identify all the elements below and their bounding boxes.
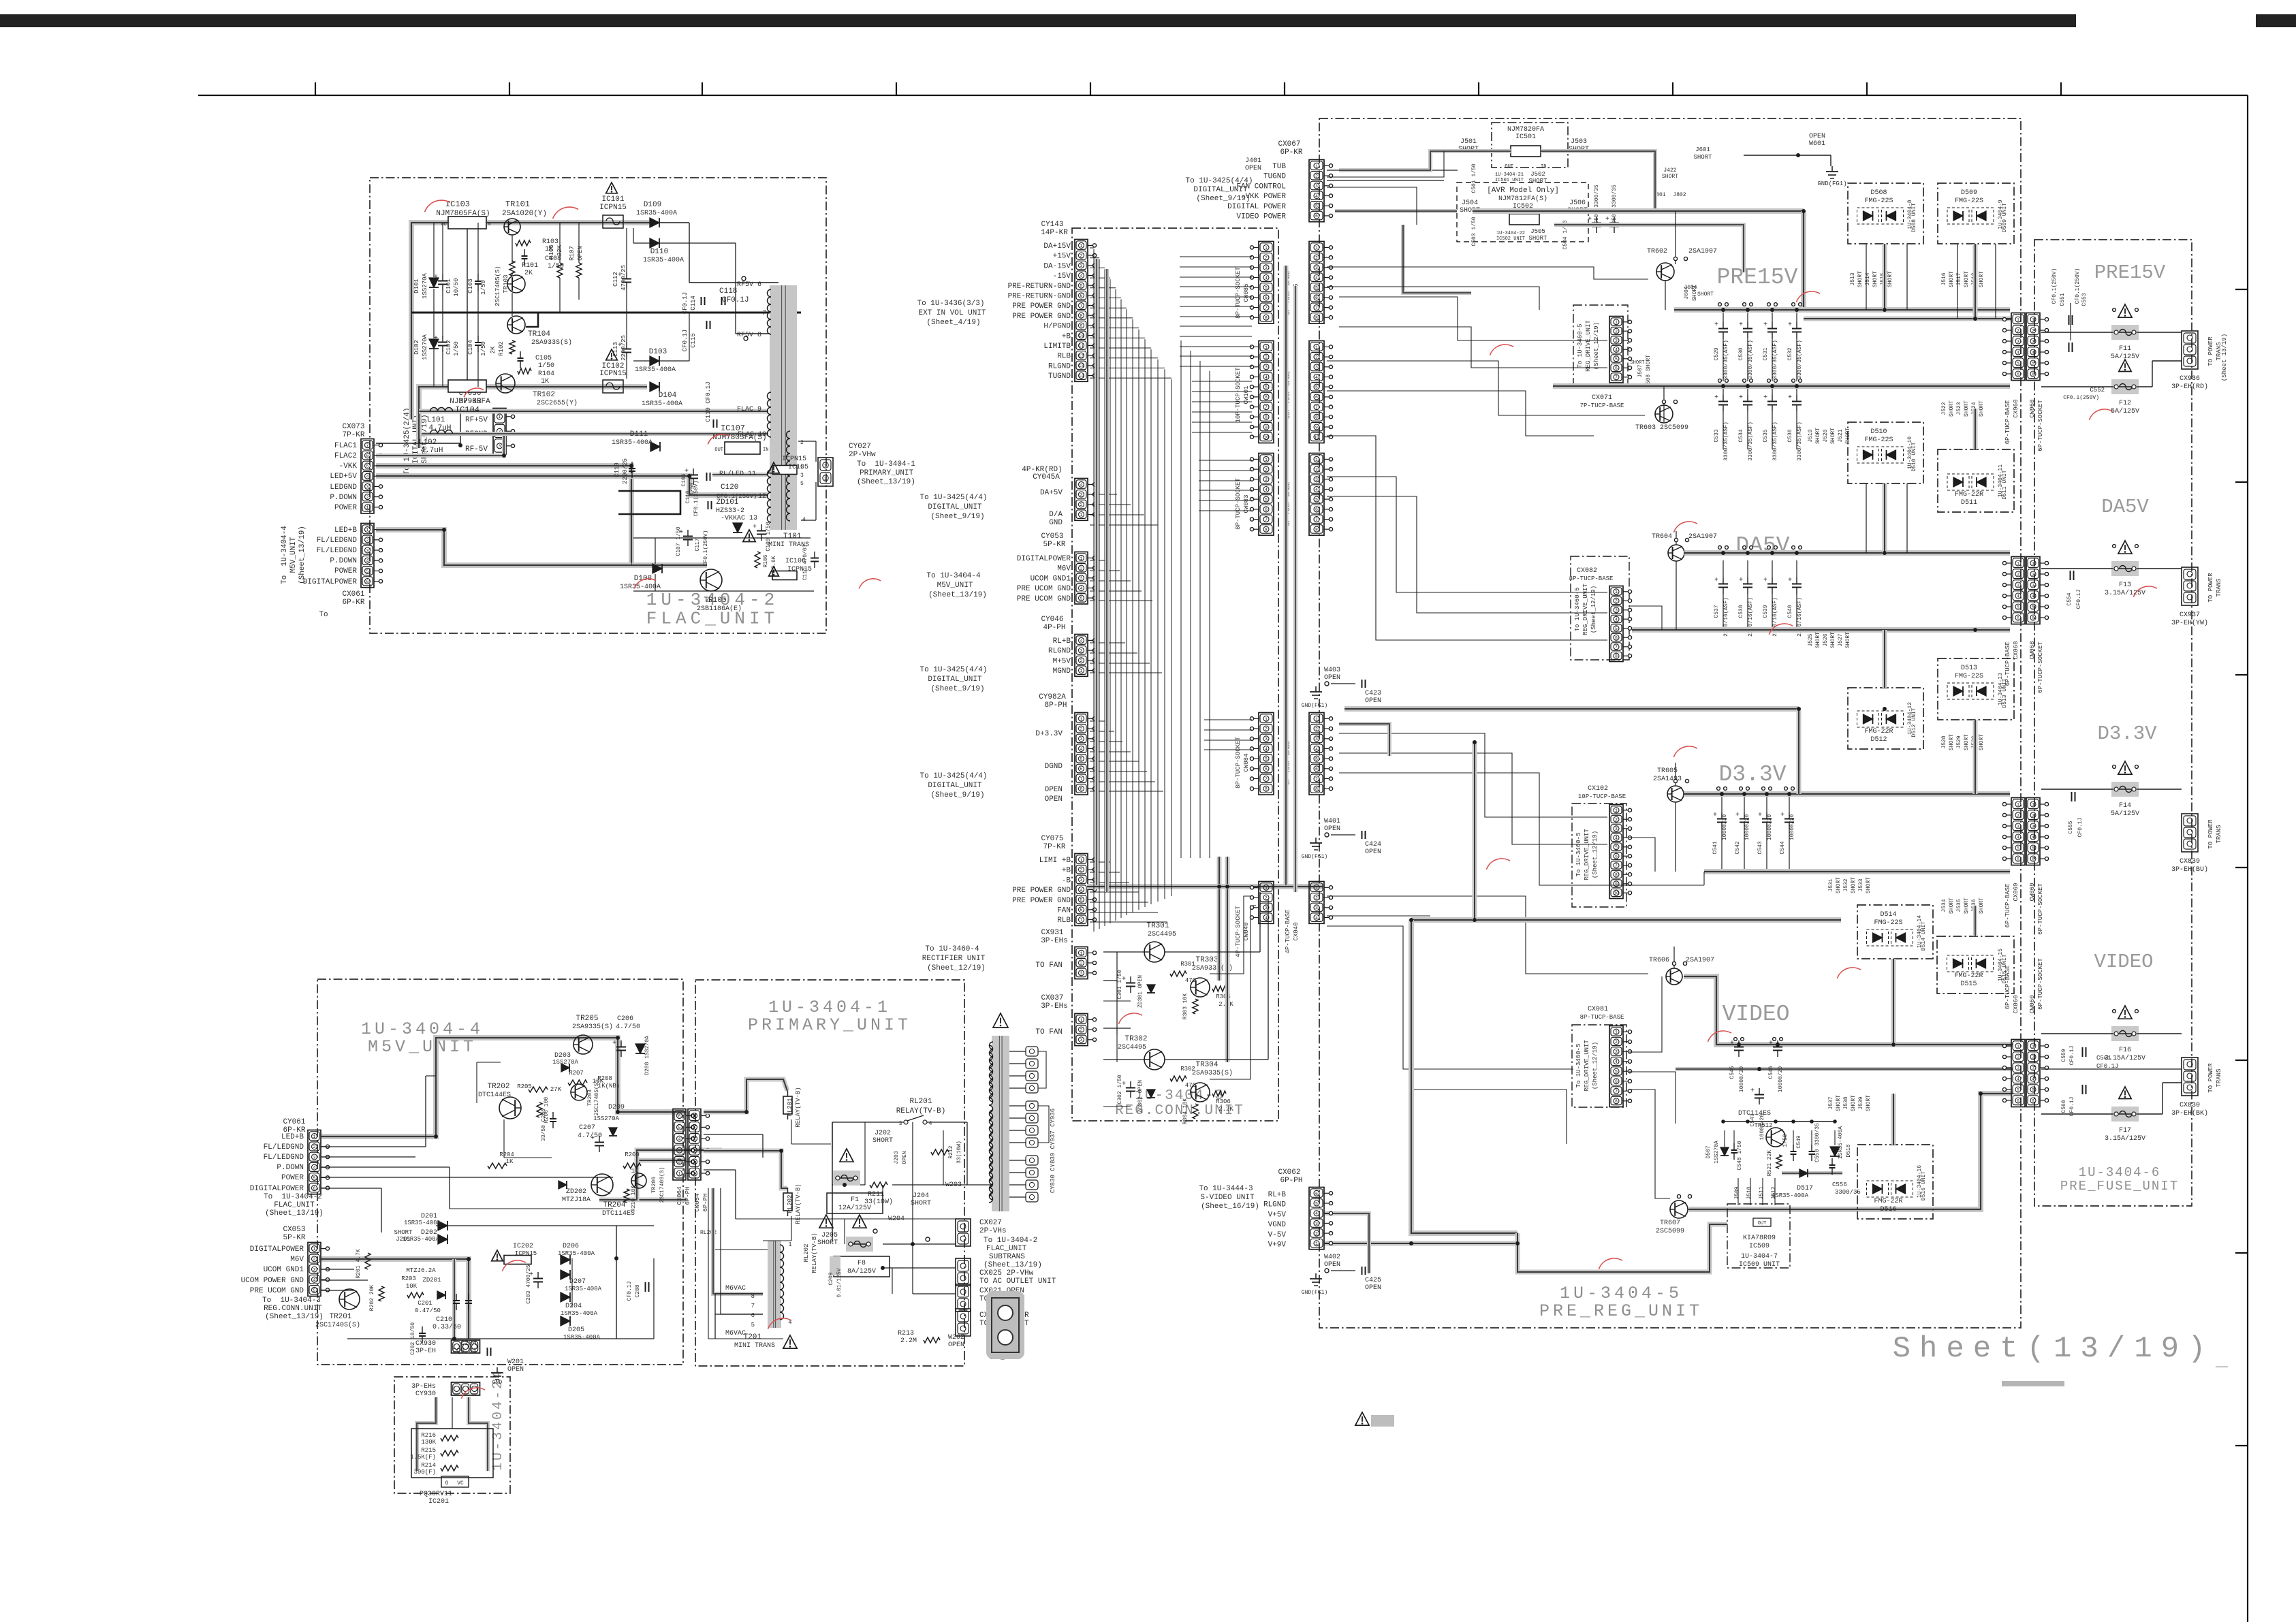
svg-text:VGND: VGND	[1268, 1221, 1287, 1229]
svg-text:S-VIDEO UNIT: S-VIDEO UNIT	[1200, 1194, 1255, 1202]
svg-text:2: 2	[1265, 468, 1268, 473]
svg-text:8: 8	[1615, 654, 1618, 659]
svg-text:ICPN15: ICPN15	[515, 1250, 537, 1257]
svg-text:3: 3	[1080, 737, 1083, 742]
svg-text:4P-TUCP-SOCKET: 4P-TUCP-SOCKET	[1235, 906, 1242, 957]
svg-text:1U-3404-14: 1U-3404-14	[1917, 915, 1923, 948]
svg-text:D509: D509	[1961, 189, 1977, 197]
svg-text:SHORT: SHORT	[1964, 271, 1970, 287]
svg-text:ZD301 OPEN: ZD301 OPEN	[1137, 975, 1144, 1008]
svg-text:TUB: TUB	[1272, 163, 1286, 171]
svg-text:VIDEO POWER: VIDEO POWER	[1236, 213, 1286, 221]
svg-text:+: +	[1763, 394, 1767, 402]
svg-text:CF0.1J: CF0.1J	[2077, 818, 2083, 838]
svg-text:3: 3	[1080, 493, 1083, 498]
svg-text:2: 2	[800, 440, 804, 446]
svg-text:6P-TUCP-BASE: 6P-TUCP-BASE	[2004, 642, 2011, 686]
svg-text:3: 3	[1315, 266, 1318, 270]
svg-text:2: 2	[313, 1257, 316, 1262]
svg-text:2SC4495: 2SC4495	[1118, 1044, 1146, 1051]
svg-text:5: 5	[1615, 845, 1618, 850]
svg-text:DA+5V: DA+5V	[1040, 489, 1063, 497]
svg-text:J504: J504	[1462, 200, 1478, 207]
svg-text:2P-VHw: 2P-VHw	[849, 451, 876, 459]
svg-text:OUT: OUT	[1758, 1221, 1767, 1226]
svg-text:4: 4	[1265, 916, 1268, 921]
svg-text:D209: D209	[608, 1104, 625, 1111]
svg-text:4: 4	[1315, 488, 1318, 492]
svg-text:1SS270A: 1SS270A	[422, 273, 428, 299]
svg-text:7P-TUCP-BASE: 7P-TUCP-BASE	[1580, 402, 1624, 409]
svg-text:LIMI +B: LIMI +B	[1039, 857, 1071, 865]
svg-text:4: 4	[366, 559, 369, 564]
svg-text:DIGITAL POWER: DIGITAL POWER	[1227, 203, 1286, 211]
svg-text:3: 3	[1315, 477, 1318, 482]
svg-text:8: 8	[1315, 415, 1318, 420]
svg-text:T101: T101	[783, 532, 802, 541]
svg-text:2: 2	[2017, 572, 2019, 577]
svg-text:5P-KR: 5P-KR	[283, 1234, 305, 1242]
svg-text:10: 10	[1263, 435, 1269, 440]
svg-text:F11: F11	[2119, 345, 2131, 353]
svg-text:1/50: 1/50	[1782, 1134, 1789, 1147]
svg-text:DIGITAL_UNIT: DIGITAL_UNIT	[928, 503, 982, 511]
svg-text:+: +	[1714, 321, 1718, 329]
svg-text:FMG-22S: FMG-22S	[1955, 197, 1983, 205]
svg-text:CF0.1(250V): CF0.1(250V)	[2075, 268, 2081, 304]
svg-text:6: 6	[1315, 1192, 1318, 1196]
svg-text:KIA78R09: KIA78R09	[1743, 1235, 1776, 1242]
svg-text:SHORT: SHORT	[1872, 271, 1878, 287]
svg-text:3.15A/125V: 3.15A/125V	[2105, 589, 2145, 597]
svg-text:2SC1740S(S): 2SC1740S(S)	[315, 1321, 360, 1329]
svg-text:4P-TUCP-BASE: 4P-TUCP-BASE	[1285, 910, 1291, 954]
svg-text:PRE15V: PRE15V	[2094, 261, 2166, 284]
svg-text:4: 4	[313, 1166, 316, 1171]
svg-text:To 1U-3404-2: To 1U-3404-2	[984, 1237, 1037, 1245]
svg-text:J521: J521	[1838, 429, 1844, 442]
svg-text:D104: D104	[659, 392, 677, 400]
svg-text:RL202: RL202	[787, 1194, 793, 1213]
svg-text:3300/35: 3300/35	[1835, 1189, 1861, 1196]
svg-text:+: +	[1588, 216, 1592, 223]
svg-text:To 1U-3425(4/4): To 1U-3425(4/4)	[919, 666, 987, 674]
svg-text:1U-3404-21: 1U-3404-21	[1495, 172, 1524, 178]
svg-text:SHORT: SHORT	[1836, 877, 1842, 893]
svg-text:GND: GND	[1049, 519, 1063, 527]
svg-text:TR104: TR104	[528, 330, 550, 338]
svg-text:2SA1020(Y): 2SA1020(Y)	[502, 210, 547, 218]
svg-text:CY053: CY053	[1041, 532, 1063, 541]
svg-text:SHORT: SHORT	[1949, 734, 1955, 750]
svg-text:RF5V 8: RF5V 8	[737, 332, 761, 339]
svg-text:GND(FG1): GND(FG1)	[1817, 180, 1846, 187]
svg-text:1: 1	[1315, 886, 1318, 891]
svg-text:4.7uH: 4.7uH	[428, 424, 451, 432]
svg-text:6: 6	[1615, 855, 1618, 859]
svg-text:1: 1	[2017, 802, 2019, 807]
svg-text:2: 2	[366, 495, 369, 500]
svg-text:OPEN: OPEN	[1045, 786, 1063, 794]
svg-text:27K: 27K	[550, 1086, 562, 1093]
svg-text:C538: C538	[1738, 605, 1744, 618]
svg-text:(Sheet_13/19): (Sheet_13/19)	[265, 1209, 324, 1218]
svg-text:1U-3404-10: 1U-3404-10	[1907, 436, 1913, 469]
svg-text:3: 3	[1615, 608, 1618, 613]
svg-text:D102: D102	[413, 340, 420, 355]
svg-text:CF0.1J: CF0.1J	[2069, 1097, 2075, 1117]
svg-text:SHORT: SHORT	[911, 1200, 931, 1207]
svg-text:TO POWER: TO POWER	[2207, 819, 2214, 849]
svg-text:10000/20: 10000/20	[1778, 1066, 1784, 1093]
svg-text:+: +	[612, 1040, 616, 1047]
svg-text:(Sheet_13/19): (Sheet_13/19)	[265, 1313, 324, 1321]
svg-text:+B: +B	[1062, 332, 1071, 340]
svg-text:CY027: CY027	[849, 443, 871, 451]
svg-text:1: 1	[1080, 951, 1083, 956]
svg-text:LED+5V: LED+5V	[330, 473, 357, 481]
svg-text:4: 4	[1615, 618, 1618, 622]
svg-text:4: 4	[2032, 1077, 2034, 1081]
svg-text:D513: D513	[1961, 665, 1977, 672]
svg-text:R106: R106	[763, 554, 769, 567]
svg-text:3: 3	[1080, 971, 1083, 976]
svg-text:2SA9335(S): 2SA9335(S)	[1192, 1069, 1233, 1077]
svg-text:+: +	[753, 524, 757, 531]
svg-text:8: 8	[1265, 528, 1268, 532]
svg-text:6: 6	[366, 454, 369, 458]
svg-text:CW054: CW054	[694, 1193, 701, 1211]
svg-text:1U-3404-16: 1U-3404-16	[1917, 1165, 1923, 1198]
svg-text:To 1U-3460-5: To 1U-3460-5	[1577, 324, 1584, 368]
svg-text:CF0.1J: CF0.1J	[2069, 1046, 2075, 1066]
svg-text:IN: IN	[763, 447, 768, 453]
svg-text:1K: 1K	[541, 378, 549, 385]
svg-text:10/50: 10/50	[453, 278, 460, 296]
svg-text:3: 3	[1315, 906, 1318, 910]
svg-text:TO POWER: TO POWER	[2207, 1063, 2214, 1093]
svg-text:6P-TUCP-SOCKET: 6P-TUCP-SOCKET	[2037, 400, 2044, 451]
svg-text:6: 6	[1265, 395, 1268, 400]
svg-text:6P-TUCP-BASE: 6P-TUCP-BASE	[2004, 884, 2011, 928]
svg-text:2SA933S(S): 2SA933S(S)	[531, 338, 572, 347]
svg-text:SHORT: SHORT	[1866, 1095, 1872, 1111]
svg-text:C110: C110	[614, 462, 620, 477]
svg-text:3300/35(ASF): 3300/35(ASF)	[1797, 422, 1803, 461]
svg-text:TRANS: TRANS	[2216, 825, 2222, 843]
svg-text:M5V_UNIT: M5V_UNIT	[289, 537, 298, 573]
svg-text:J502: J502	[1530, 171, 1545, 178]
svg-text:GND(FG1): GND(FG1)	[1302, 1290, 1327, 1296]
svg-text:OPEN: OPEN	[1045, 795, 1063, 804]
svg-text:J514: J514	[1865, 272, 1871, 285]
svg-text:RELAY(TV-B): RELAY(TV-B)	[896, 1107, 946, 1115]
svg-text:6: 6	[751, 1312, 755, 1319]
svg-text:CW960: CW960	[2029, 399, 2036, 417]
svg-text:2: 2	[1080, 503, 1083, 507]
svg-text:SHORT: SHORT	[1693, 154, 1712, 161]
svg-text:(Sheet_16/19): (Sheet_16/19)	[1201, 1203, 1259, 1211]
svg-text:TUGND: TUGND	[1263, 173, 1286, 181]
svg-text:C540: C540	[1787, 605, 1793, 618]
svg-text:2: 2	[1080, 868, 1083, 873]
svg-text:5: 5	[2017, 1087, 2019, 1092]
svg-text:SUBTRANS: SUBTRANS	[989, 1253, 1025, 1261]
svg-text:+: +	[434, 335, 438, 343]
svg-text:5: 5	[1315, 385, 1318, 390]
svg-text:3: 3	[2032, 583, 2034, 588]
svg-text:OPEN: OPEN	[902, 1151, 908, 1164]
svg-text:12: 12	[1079, 354, 1084, 359]
svg-text:R207: R207	[569, 1070, 584, 1077]
svg-text:2: 2	[1315, 1232, 1318, 1237]
svg-text:DA5V: DA5V	[2101, 496, 2149, 518]
svg-text:3: 3	[2017, 824, 2019, 829]
svg-text:1: 1	[1080, 669, 1083, 673]
svg-text:5: 5	[2032, 361, 2034, 366]
svg-text:3: 3	[693, 1149, 696, 1154]
svg-text:SHORT: SHORT	[394, 1229, 413, 1236]
svg-text:TR103: TR103	[503, 274, 509, 293]
svg-text:6: 6	[1315, 507, 1318, 512]
svg-text:1U-3404-5: 1U-3404-5	[1560, 1284, 1682, 1303]
svg-text:W601: W601	[1809, 140, 1825, 148]
svg-text:1: 1	[2032, 561, 2034, 566]
svg-text:ZD302 OPEN: ZD302 OPEN	[1137, 1080, 1144, 1113]
svg-text:C503 1/50: C503 1/50	[1471, 217, 1477, 246]
svg-text:4: 4	[1080, 483, 1083, 488]
svg-text:R205: R205	[517, 1083, 532, 1090]
svg-text:7: 7	[1080, 777, 1083, 782]
svg-text:RL+B: RL+B	[1268, 1191, 1287, 1199]
svg-text:4: 4	[1315, 747, 1318, 752]
svg-text:2: 2	[1080, 961, 1083, 966]
svg-text:2: 2	[1080, 567, 1083, 571]
svg-text:6: 6	[1080, 293, 1083, 298]
svg-text:PRE POWER GND: PRE POWER GND	[1012, 897, 1071, 905]
svg-text:C555: C555	[2068, 821, 2074, 833]
svg-text:DTC114ES: DTC114ES	[602, 1210, 635, 1218]
svg-text:M6V: M6V	[290, 1256, 304, 1264]
svg-text:OPEN: OPEN	[1245, 165, 1261, 172]
svg-text:P.DOWN: P.DOWN	[277, 1164, 304, 1172]
svg-text:CX082: CX082	[1577, 567, 1597, 575]
svg-text:CX062: CX062	[1278, 1168, 1300, 1177]
svg-text:3: 3	[1265, 477, 1268, 482]
svg-text:CX064: CX064	[676, 1186, 683, 1205]
svg-text:CX067: CX067	[1278, 140, 1300, 148]
svg-text:C539: C539	[1763, 605, 1769, 618]
svg-text:R210 10K: R210 10K	[631, 1186, 637, 1212]
svg-text:TR303: TR303	[1195, 956, 1218, 964]
svg-text:P.DOWN: P.DOWN	[330, 557, 357, 565]
svg-text:1: 1	[2017, 561, 2019, 566]
svg-text:To 1U-3425(4/4): To 1U-3425(4/4)	[919, 494, 987, 502]
svg-text:+: +	[1714, 394, 1718, 402]
svg-text:OPEN: OPEN	[948, 1341, 964, 1349]
svg-text:12A/125V: 12A/125V	[838, 1204, 871, 1212]
svg-text:1SR35-400A: 1SR35-400A	[403, 1236, 440, 1243]
svg-text:3300/35(ASF): 3300/35(ASF)	[1723, 422, 1729, 461]
svg-text:J539: J539	[1858, 1096, 1864, 1109]
svg-text:M+5V: M+5V	[1053, 657, 1071, 665]
svg-text:FL/LEDGND: FL/LEDGND	[317, 537, 358, 545]
svg-text:6: 6	[366, 579, 369, 584]
svg-text:8A/125V: 8A/125V	[847, 1267, 876, 1275]
svg-text:3: 3	[313, 1267, 316, 1272]
svg-text:TR206: TR206	[651, 1177, 657, 1193]
svg-text:5: 5	[1265, 498, 1268, 503]
svg-text:CX937: CX937	[2180, 611, 2200, 619]
svg-text:RLGND: RLGND	[1048, 648, 1071, 656]
svg-text:4: 4	[1080, 586, 1083, 591]
svg-text:5: 5	[366, 464, 369, 468]
svg-text:J510: J510	[1746, 1186, 1752, 1199]
svg-text:L101: L101	[427, 416, 445, 424]
svg-text:ICPN15: ICPN15	[599, 204, 627, 212]
svg-text:1/50: 1/50	[689, 482, 695, 495]
svg-text:D508: D508	[1870, 189, 1887, 197]
svg-text:C534: C534	[1738, 429, 1744, 442]
svg-text:C119 CF0.1J: C119 CF0.1J	[705, 381, 712, 422]
svg-text:SHORT: SHORT	[1528, 178, 1547, 185]
svg-text:GND(FG1): GND(FG1)	[1302, 854, 1327, 860]
svg-text:4: 4	[1080, 274, 1083, 279]
svg-text:1: 1	[1615, 1030, 1618, 1035]
svg-text:5: 5	[313, 1288, 316, 1293]
svg-text:10000/20: 10000/20	[1767, 814, 1773, 841]
svg-text:FMG-22S: FMG-22S	[1874, 919, 1902, 927]
svg-text:6: 6	[1265, 296, 1268, 300]
svg-text:PRE UCOM GND: PRE UCOM GND	[1017, 595, 1071, 603]
svg-text:D3.3V: D3.3V	[2097, 722, 2157, 745]
svg-text:0.01/125V: 0.01/125V	[836, 1268, 843, 1297]
svg-text:+: +	[1730, 1040, 1734, 1047]
svg-text:J517: J517	[1956, 272, 1962, 285]
svg-text:FMG-22R: FMG-22R	[1954, 972, 1983, 980]
svg-text:6: 6	[1265, 767, 1268, 772]
svg-text:D3.3V: D3.3V	[1718, 762, 1786, 787]
svg-text:7: 7	[1265, 306, 1268, 311]
svg-text:4: 4	[2017, 1077, 2019, 1081]
svg-text:0.33/50: 0.33/50	[433, 1323, 461, 1331]
svg-text:2: 2	[1615, 330, 1618, 334]
svg-text:4: 4	[1315, 375, 1318, 380]
svg-text:3: 3	[2032, 824, 2034, 829]
svg-text:C425: C425	[1365, 1277, 1381, 1284]
svg-text:SHORT: SHORT	[1697, 291, 1714, 298]
svg-text:1SS270A: 1SS270A	[1714, 1141, 1720, 1164]
svg-text:REG_DRIVE_UNIT: REG_DRIVE_UNIT	[1584, 829, 1590, 880]
svg-text:M6VAC: M6VAC	[725, 1330, 746, 1337]
svg-text:VC: VC	[457, 1480, 464, 1486]
svg-text:LED+B: LED+B	[334, 526, 357, 535]
svg-text:CW084: CW084	[1243, 753, 1250, 772]
svg-text:8: 8	[1315, 316, 1318, 321]
svg-text:10: 10	[1314, 435, 1319, 440]
svg-text:CX839: CX839	[2180, 858, 2200, 865]
svg-text:GND(FG1): GND(FG1)	[1302, 703, 1327, 709]
svg-text:2: 2	[1315, 896, 1318, 901]
svg-text:3: 3	[313, 1155, 316, 1160]
svg-text:1: 1	[366, 528, 369, 532]
svg-text:3300/35(ASF): 3300/35(ASF)	[1797, 340, 1803, 379]
svg-text:10: 10	[1079, 334, 1084, 338]
svg-text:J533: J533	[1858, 878, 1864, 891]
svg-text:(Sheet_13/19): (Sheet_13/19)	[857, 478, 915, 486]
svg-text:7: 7	[1615, 375, 1618, 380]
svg-text:SHORT: SHORT	[1949, 897, 1955, 914]
svg-text:P.DOWN: P.DOWN	[330, 494, 357, 502]
svg-text:PRE POWER GND: PRE POWER GND	[1012, 887, 1071, 895]
svg-text:RECTIFIER UNIT: RECTIFIER UNIT	[922, 955, 986, 963]
svg-text:D515: D515	[1960, 981, 1977, 988]
svg-text:J523: J523	[1956, 402, 1962, 415]
svg-text:2: 2	[1315, 468, 1318, 473]
svg-text:C559: C559	[2061, 1049, 2067, 1062]
svg-text:4: 4	[1265, 375, 1268, 380]
svg-text:7: 7	[1315, 518, 1318, 522]
svg-text:TR605: TR605	[1657, 767, 1678, 775]
svg-text:1: 1	[1315, 1241, 1318, 1246]
svg-text:CX102: CX102	[1588, 785, 1608, 793]
svg-text:RF-5V: RF-5V	[465, 445, 488, 454]
svg-text:TR203: TR203	[587, 1090, 593, 1106]
svg-text:PRE-RETURN-GND: PRE-RETURN-GND	[1008, 283, 1071, 291]
svg-text:1: 1	[2017, 317, 2019, 322]
svg-text:5: 5	[693, 1126, 696, 1130]
svg-text:5: 5	[1315, 757, 1318, 762]
svg-text:SHORT: SHORT	[1851, 877, 1857, 893]
svg-text:F1: F1	[851, 1196, 859, 1204]
svg-text:5: 5	[366, 569, 369, 574]
svg-text:FL/LEDGND: FL/LEDGND	[264, 1143, 304, 1151]
svg-text:LED+B: LED+B	[281, 1133, 304, 1141]
svg-text:5: 5	[313, 1176, 316, 1181]
svg-text:CW069: CW069	[2029, 882, 2036, 901]
svg-text:V-5V: V-5V	[1268, 1231, 1287, 1239]
svg-text:4: 4	[1080, 747, 1083, 752]
svg-text:TR603 2SC5099: TR603 2SC5099	[1635, 424, 1688, 432]
svg-text:J511: J511	[1759, 1186, 1765, 1199]
svg-text:NJM7805FA(S): NJM7805FA(S)	[712, 434, 766, 442]
svg-text:NJM7805FA(S): NJM7805FA(S)	[436, 210, 490, 218]
svg-text:+: +	[591, 1135, 595, 1143]
svg-text:5: 5	[1315, 204, 1318, 209]
svg-text:6: 6	[1315, 296, 1318, 300]
svg-text:CW068: CW068	[2029, 641, 2036, 659]
svg-text:3300/35(ASF): 3300/35(ASF)	[1748, 422, 1754, 461]
svg-text:3P-EH(YW): 3P-EH(YW)	[2171, 619, 2208, 627]
svg-text:PRIMARY_UNIT: PRIMARY_UNIT	[860, 469, 914, 477]
svg-text:5: 5	[2032, 605, 2034, 609]
svg-text:2: 2	[2017, 813, 2019, 818]
svg-text:1/50: 1/50	[480, 280, 487, 295]
svg-text:OPEN: OPEN	[1365, 697, 1381, 705]
svg-text:NJM7820FA: NJM7820FA	[1507, 126, 1544, 133]
svg-text:1SR35-400A: 1SR35-400A	[636, 210, 677, 217]
svg-text:2: 2	[313, 1145, 316, 1149]
svg-text:4: 4	[1315, 276, 1318, 281]
svg-text:CW083: CW083	[1243, 494, 1250, 513]
svg-text:(Sheet_4/19): (Sheet_4/19)	[926, 319, 980, 327]
svg-text:C301 1/50: C301 1/50	[1117, 970, 1123, 999]
svg-text:D+3.3V: D+3.3V	[1035, 730, 1063, 738]
svg-text:J519: J519	[1808, 429, 1814, 442]
svg-text:C546: C546	[1768, 1066, 1774, 1079]
svg-text:POWER: POWER	[281, 1174, 304, 1182]
svg-text:+: +	[1605, 216, 1609, 223]
